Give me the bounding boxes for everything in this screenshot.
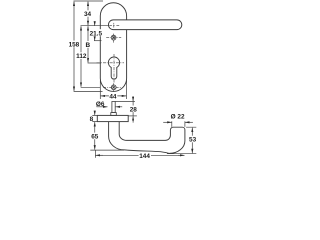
svg-text:34: 34 [84,11,92,18]
svg-text:8: 8 [90,116,94,123]
extension lines 44 [100,80,126,99]
dim 53 [167,127,196,154]
svg-text:B: B [85,42,90,49]
svg-text:Ø 22: Ø 22 [171,113,185,120]
label 65 [91,133,100,140]
dim 65 [94,122,96,150]
label 28 [129,106,138,113]
svg-text:44: 44 [109,94,117,101]
label 158 [68,41,80,48]
dim 112 [80,26,82,87]
backplate outline [100,3,126,92]
label 53 [188,136,197,143]
cylinder [108,57,119,79]
label 34 [84,10,92,16]
svg-text:112: 112 [76,53,87,60]
dim 28 [115,101,135,103]
svg-text:158: 158 [69,42,80,49]
extension line screw2 axis [81,86,101,88]
plate bar side view [97,115,128,121]
dim 21.5 arrows [94,21,96,26]
dim Ø6 leader arrows [97,106,108,108]
svg-text:144: 144 [139,153,150,160]
label B [86,41,91,48]
dim 8 ext lines [92,115,97,121]
screw hole bottom [111,85,116,90]
label 21.5 [89,29,102,36]
dim 158 [73,2,75,91]
extension line plate bottom [74,90,103,92]
dim B [87,26,89,62]
dim Ø22 [172,121,185,127]
screw hole top [111,35,116,40]
spindle stem [112,102,115,113]
extension line cylinder axis [88,62,101,64]
svg-text:21.5: 21.5 [90,30,103,37]
label 112 [75,52,87,59]
extension line plate top [74,0,104,2]
svg-text:Ø6: Ø6 [96,101,105,108]
dim 144 [94,150,96,158]
extension line screw1 [94,40,102,42]
label 144 [139,152,151,159]
lever side outline [109,122,185,154]
svg-text:53: 53 [189,137,197,144]
svg-text:28: 28 [130,106,138,113]
dim 44 [101,95,127,97]
lever bar top view [108,20,181,30]
extension line lever axis [81,25,109,27]
hub centerline cross [109,23,119,28]
svg-text:65: 65 [91,133,99,140]
extension line grip bottom [90,149,124,151]
dim 34 [87,2,89,26]
label 44 [109,93,117,99]
